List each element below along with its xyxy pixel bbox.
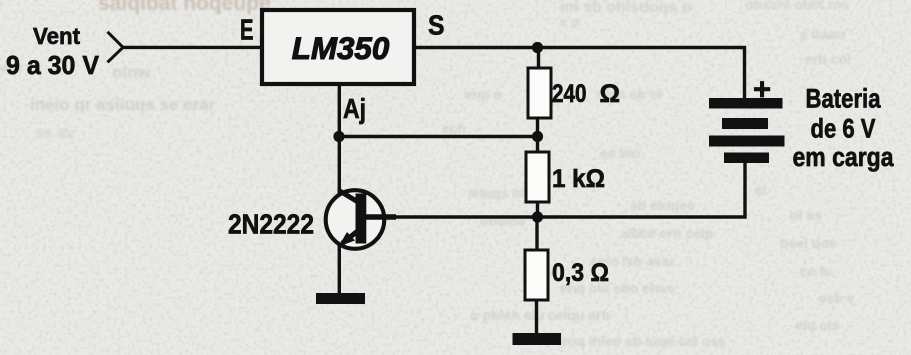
svg-text:ss av: ss av (35, 125, 75, 142)
svg-text:S: S (428, 10, 445, 41)
emitter lead inside (342, 230, 360, 244)
wire input to LM350 E (123, 46, 262, 49)
node junction dot 1k/0.3 (532, 211, 543, 222)
node junction dot S/240 (532, 42, 543, 53)
op: LM350 regulator box U1 (262, 10, 414, 84)
node junction dot Aj (333, 131, 344, 142)
ground (0.3 ohm) (513, 333, 562, 345)
ground (transistor emitter) (316, 293, 365, 304)
svg-text:9 a 30 V: 9 a 30 V (6, 50, 100, 80)
wire 1k bottom to junction (536, 202, 539, 218)
svg-text:Vent: Vent (33, 23, 80, 49)
svg-text:LM350: LM350 (292, 30, 390, 66)
svg-text:obssnl obot ms: obssnl obot ms (745, 0, 849, 12)
svg-text:c o: c o (560, 14, 580, 30)
transistor body circle (326, 190, 385, 249)
svg-text:0,3 Ω: 0,3 Ω (552, 259, 609, 287)
svg-text:Aj: Aj (343, 93, 366, 124)
svg-text:olnw: olnw (112, 63, 151, 82)
svg-text:ce lu: ce lu (800, 263, 832, 279)
svg-text:ieluqs ohl: ieluqs ohl (468, 185, 533, 201)
wire LM350 S to top junction and battery corner (414, 48, 745, 99)
svg-text:ech: ech (442, 120, 466, 136)
svg-text:240: 240 (552, 80, 587, 108)
svg-text:albce ern celp: albce ern celp (620, 225, 713, 241)
wire 0.3ohm top stub (535, 217, 538, 250)
svg-text:eoq ihleo sb luqe cel oss: eoq ihleo sb luqe cel oss (560, 333, 726, 349)
svg-text:bsel qoe: bsel qoe (780, 235, 837, 251)
svg-text:Ω: Ω (600, 80, 621, 108)
svg-text:1 kΩ: 1 kΩ (552, 165, 605, 193)
collector lead inside (339, 191, 358, 203)
battery plate long 1 (709, 98, 783, 109)
input arrow (Vent terminal) (108, 32, 124, 63)
node junction dot 240/1k (532, 131, 543, 142)
transistor Q1 2N2222 (326, 187, 396, 251)
emitter wire to ground (338, 244, 341, 294)
wire Aj junction horizontal (339, 135, 538, 138)
svg-text:o pblsh eiu celqu arb: o pblsh eiu celqu arb (470, 307, 610, 323)
collector wire stub into circle (338, 187, 341, 194)
wire 0.3ohm bottom to ground (535, 301, 538, 336)
svg-text:Bateria: Bateria (806, 84, 882, 114)
svg-text:el: el (755, 181, 767, 197)
battery B1 (709, 98, 785, 163)
svg-text:elq ois: elq ois (795, 317, 840, 333)
svg-text:E: E (240, 15, 254, 47)
svg-text:osb e: osb e (818, 290, 855, 306)
resistor R3 0.3 ohm (525, 250, 548, 300)
svg-text:2N2222: 2N2222 (228, 209, 314, 240)
svg-text:es blo: es blo (600, 145, 640, 161)
resistor R2 1 kohm (526, 152, 549, 202)
svg-text:ol es: ol es (790, 207, 822, 223)
svg-text:eup o: eup o (465, 86, 502, 102)
wire Aj vertical: box bottom to junction to transistor collector (338, 86, 341, 192)
svg-text:e ltaarr: e ltaarr (800, 26, 847, 42)
svg-text:erb col: erb col (805, 51, 851, 67)
svg-text:+: + (753, 72, 771, 107)
battery plate short 2 (724, 153, 769, 164)
emitter wire stub (338, 244, 341, 251)
base wire: transistor to junction to battery bottom corner (384, 162, 745, 217)
battery plate long 2 (709, 136, 785, 147)
resistor R1 240 ohm (528, 68, 551, 118)
battery plate short 1 (722, 118, 768, 129)
wire 240ohm top stub (537, 48, 540, 69)
svg-text:saiqibat noqeupe: saiqibat noqeupe (98, 0, 271, 15)
svg-text:de 6 V: de 6 V (811, 114, 876, 144)
svg-text:sb eluqeo: sb eluqeo (630, 197, 695, 213)
svg-text:ineio qr asiiuqs se erar: ineio qr asiiuqs se erar (30, 95, 216, 114)
base bar (356, 194, 367, 244)
base lead stub (364, 214, 396, 220)
svg-text:em carga: em carga (793, 142, 895, 172)
wire 240ohm bottom to junction to 1k top (536, 117, 539, 152)
emitter arrowhead (339, 232, 356, 247)
